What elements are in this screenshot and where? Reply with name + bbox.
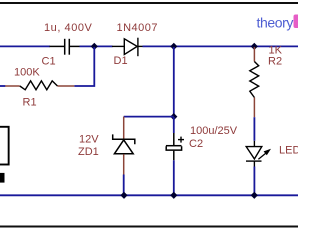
plug fragment rectangle (cut off at left edge) — [0, 127, 9, 165]
bottom border line — [0, 226, 298, 228]
wire zener tap horizontal — [124, 116, 174, 118]
svg-text:ZD1: ZD1 — [78, 146, 99, 158]
svg-text:100u/25V: 100u/25V — [190, 125, 238, 137]
wire vertical from node down to R1 — [74, 47, 94, 86]
wire stub left edge to R1 — [0, 85, 5, 87]
svg-text:D1: D1 — [114, 55, 128, 67]
wire top rail from D1 to right edge — [143, 45, 299, 47]
svg-text:R2: R2 — [268, 55, 282, 67]
LED — [246, 117, 262, 195]
node junction top rail at x=94.3 — [91, 43, 98, 50]
svg-text:1u, 400V: 1u, 400V — [44, 22, 93, 34]
LED emission arrow — [258, 149, 271, 159]
svg-text:1N4007: 1N4007 — [117, 22, 159, 34]
svg-text:100K: 100K — [14, 67, 40, 79]
svg-text:C1: C1 — [42, 56, 56, 68]
theoryCIRCUIT logo magenta block — [294, 15, 302, 29]
node junction C2 tap — [170, 113, 177, 120]
resistor R2 — [250, 47, 259, 117]
resistor R1 — [5, 81, 74, 90]
plug fragment solid bar — [0, 173, 5, 183]
node junction bottom rail at x=124 — [120, 192, 127, 199]
svg-text:theory: theory — [257, 15, 294, 31]
wire top rail between C1 and D1 — [80, 45, 113, 47]
svg-text:12V: 12V — [79, 134, 99, 146]
node junction top rail at x=254.3 — [251, 43, 258, 50]
capacitor C1 — [50, 39, 80, 55]
wire bottom rail — [0, 194, 298, 196]
node junction bottom rail at x=254.3 — [251, 192, 258, 199]
diode D1 — [112, 38, 143, 57]
wire vertical x=173.8 from top rail to C2 tap — [173, 47, 175, 117]
wire top rail left segment — [0, 45, 50, 47]
svg-text:C2: C2 — [189, 138, 203, 150]
node junction bottom rail at x=173.8 — [170, 192, 177, 199]
svg-text:R1: R1 — [23, 97, 37, 109]
capacitor C2 — [166, 117, 182, 195]
node junction top rail at x=173.8 — [170, 43, 177, 50]
top border line — [0, 2, 298, 4]
svg-text:LED: LED — [279, 144, 298, 156]
C2 plus sign — [178, 137, 184, 143]
zener diode ZD1 — [113, 117, 135, 196]
